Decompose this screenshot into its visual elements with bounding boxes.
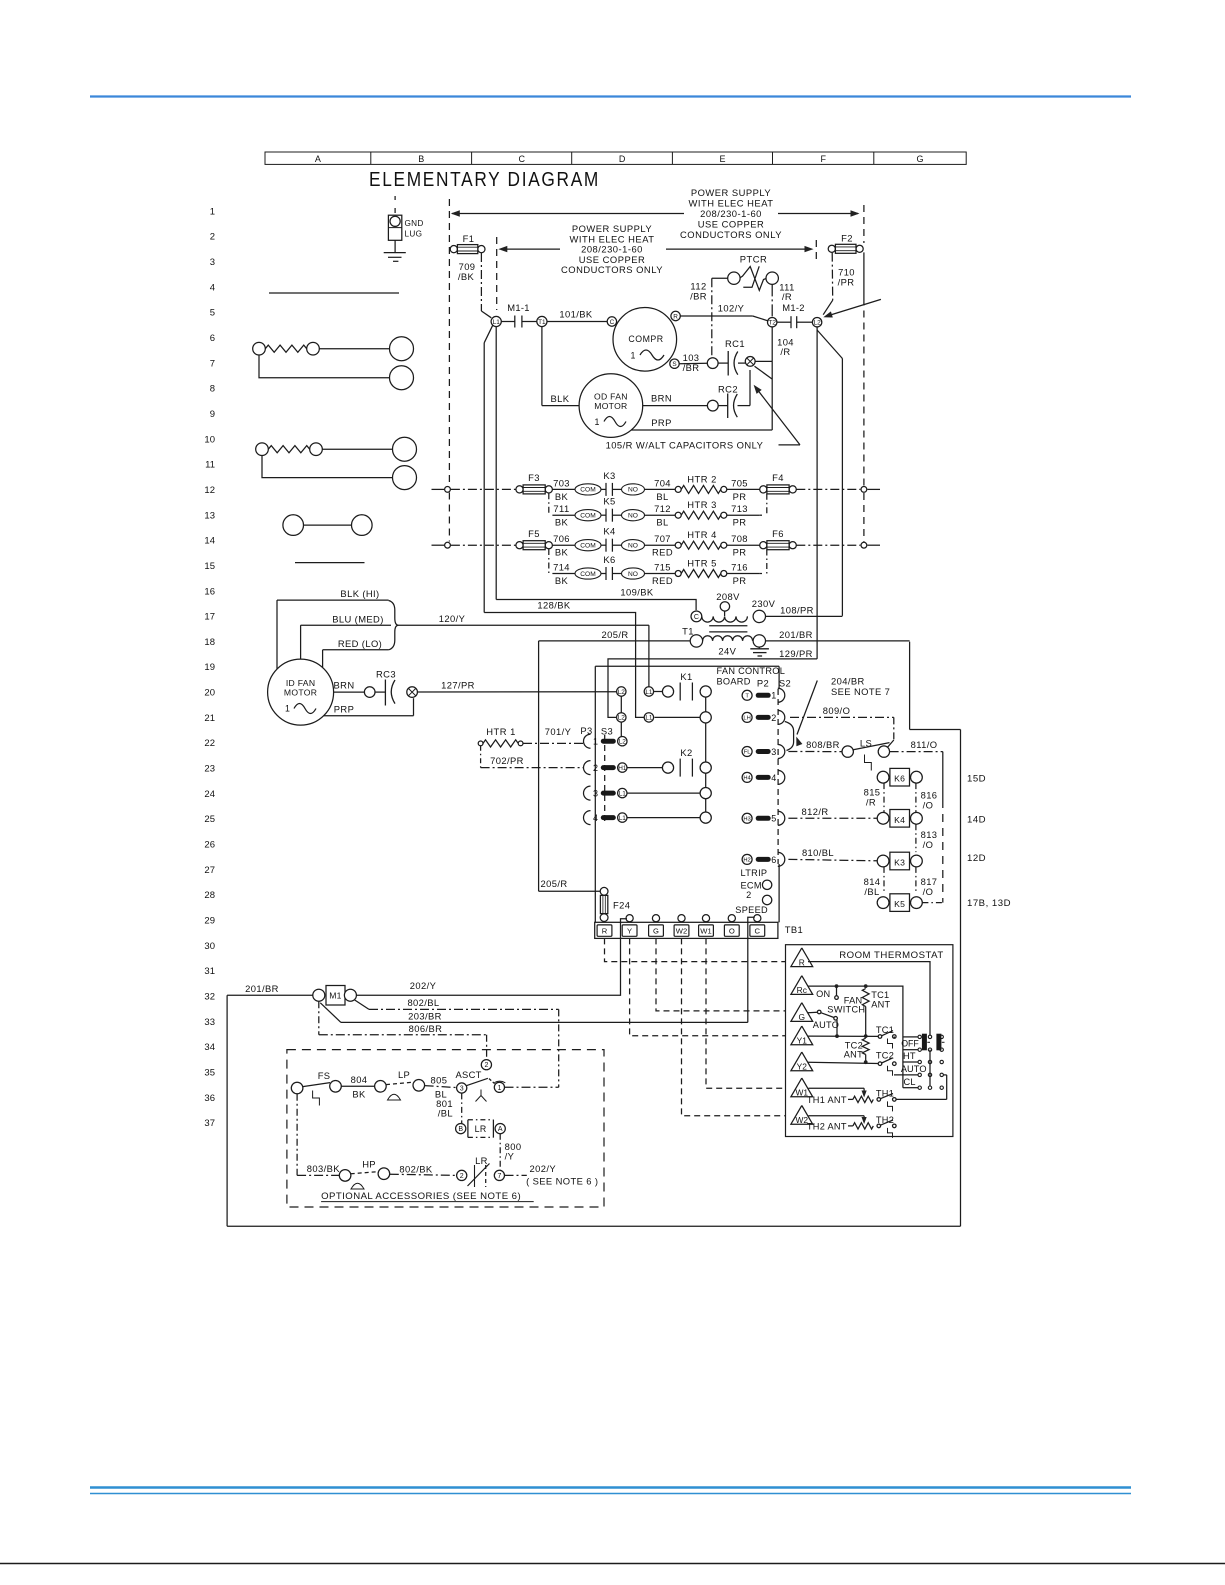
wire 702/PR <box>480 746 482 768</box>
legend symbol rows 6-7 (coil with contacts) <box>253 342 266 355</box>
svg-text:201/BR: 201/BR <box>779 629 813 640</box>
svg-text:TH2 ANT: TH2 ANT <box>807 1121 847 1131</box>
wire R to thermostat <box>605 938 786 961</box>
svg-text:129/PR: 129/PR <box>779 648 813 659</box>
svg-text:24: 24 <box>204 789 215 800</box>
gnd lug <box>394 196 396 202</box>
svg-text:GND: GND <box>405 219 424 228</box>
thermostat terminal G <box>791 1003 813 1022</box>
svg-text:3: 3 <box>771 747 776 757</box>
svg-text:S3: S3 <box>601 726 613 737</box>
svg-text:SWITCH: SWITCH <box>827 1005 865 1015</box>
svg-text:22: 22 <box>204 738 215 749</box>
field wiring stub left row12 <box>432 488 445 490</box>
svg-text:/O: /O <box>923 886 934 897</box>
wire 802/BL <box>355 1000 369 1009</box>
svg-text:3: 3 <box>460 1086 464 1093</box>
compressor COMPR 1 <box>613 308 677 372</box>
svg-text:C: C <box>694 614 699 621</box>
wire L1 drop to 109/BK <box>484 325 493 343</box>
svg-text:H4: H4 <box>743 775 751 781</box>
svg-text:L1: L1 <box>493 319 501 326</box>
svg-text:803/BK: 803/BK <box>307 1163 340 1174</box>
svg-text:4: 4 <box>771 773 776 783</box>
wire 101/BK <box>547 321 607 323</box>
svg-text:701/Y: 701/Y <box>545 726 572 737</box>
secondary ground <box>758 647 760 649</box>
svg-text:NO: NO <box>628 513 638 520</box>
wire 814/BL <box>883 867 885 894</box>
svg-text:L1: L1 <box>619 790 627 797</box>
wire 813/O <box>915 824 917 852</box>
svg-text:F4: F4 <box>772 472 784 483</box>
svg-text:S2: S2 <box>779 678 791 689</box>
contactor coil M1 <box>313 989 325 1001</box>
svg-text:HTR 4: HTR 4 <box>687 529 717 540</box>
annotation arrow to L2 <box>826 299 881 316</box>
svg-text:12: 12 <box>204 485 215 496</box>
terminal T2 <box>768 318 777 327</box>
svg-text:704: 704 <box>654 477 671 488</box>
wire 812/R <box>788 817 877 819</box>
svg-text:W2: W2 <box>676 927 687 936</box>
wire 202/Y see note 6 <box>505 1174 527 1176</box>
svg-text:715: 715 <box>654 562 671 573</box>
fan switch ON <box>836 986 838 996</box>
column header strip A-G <box>265 152 966 164</box>
svg-text:2: 2 <box>460 1173 464 1180</box>
wire T1 to OD fan (BLK) <box>541 327 543 406</box>
svg-text:BLU (MED): BLU (MED) <box>332 613 384 624</box>
page top rule (blue) <box>90 95 1131 97</box>
svg-text:1: 1 <box>497 1085 501 1092</box>
board row L1-4 <box>627 817 700 819</box>
svg-text:BK: BK <box>555 517 569 528</box>
wire F1 to L1 <box>480 253 482 311</box>
svg-text:K6: K6 <box>603 554 615 565</box>
svg-text:F5: F5 <box>528 528 540 539</box>
relay coil K4 <box>890 810 910 828</box>
svg-text:/BL: /BL <box>864 886 879 897</box>
svg-text:102/Y: 102/Y <box>718 303 745 314</box>
ID fan motor <box>268 659 334 725</box>
legend symbol rows 13-14 (two terminals) <box>283 515 304 536</box>
transformer T1 secondary <box>690 635 702 647</box>
svg-text:/O: /O <box>923 839 934 850</box>
svg-text:810/BL: 810/BL <box>802 847 834 858</box>
svg-text:BLK (HI): BLK (HI) <box>340 588 379 599</box>
svg-text:T2: T2 <box>768 320 776 327</box>
svg-text:/BR: /BR <box>690 291 707 302</box>
svg-text:208/230-1-60: 208/230-1-60 <box>700 208 762 219</box>
svg-text:BOARD: BOARD <box>717 676 751 686</box>
wire 800/Y <box>499 1134 501 1170</box>
svg-text:9: 9 <box>210 409 215 420</box>
svg-text:33: 33 <box>204 1017 215 1028</box>
field wiring stub right row12 <box>868 488 881 490</box>
svg-text:M1-1: M1-1 <box>507 302 530 313</box>
svg-text:23: 23 <box>204 764 215 775</box>
room thermostat box <box>786 945 953 1137</box>
svg-text:M1-2: M1-2 <box>782 302 805 313</box>
svg-text:B: B <box>418 154 424 164</box>
svg-text:F1: F1 <box>463 233 475 244</box>
svg-text:L1: L1 <box>619 815 627 822</box>
svg-text:35: 35 <box>204 1068 215 1079</box>
wire F2 to L2 <box>831 253 834 301</box>
wire 816/O <box>915 783 917 812</box>
svg-text:HTR 1: HTR 1 <box>486 726 516 737</box>
svg-text:6: 6 <box>771 855 776 865</box>
svg-text:K5: K5 <box>603 496 615 507</box>
svg-text:108/PR: 108/PR <box>780 604 814 615</box>
wire 806/BR <box>318 1001 320 1034</box>
svg-text:205/R: 205/R <box>601 629 628 640</box>
svg-text:708: 708 <box>731 533 748 544</box>
svg-text:1: 1 <box>210 206 215 217</box>
svg-text:R: R <box>673 313 678 320</box>
svg-text:R: R <box>799 957 805 967</box>
svg-text:711: 711 <box>553 503 569 514</box>
svg-text:FAN CONTROL: FAN CONTROL <box>717 666 786 676</box>
svg-text:NO: NO <box>628 543 638 550</box>
svg-text:8: 8 <box>210 384 215 395</box>
svg-text:2: 2 <box>771 713 776 723</box>
lockout relay LR <box>456 1124 466 1134</box>
svg-text:TB1: TB1 <box>785 924 803 935</box>
svg-text:L2: L2 <box>618 689 626 696</box>
svg-text:( SEE NOTE 6 ): ( SEE NOTE 6 ) <box>526 1176 598 1187</box>
svg-text:LR: LR <box>475 1124 487 1134</box>
svg-text:CONDUCTORS ONLY: CONDUCTORS ONLY <box>561 264 663 275</box>
wire 109/BK <box>495 327 497 600</box>
svg-text:LR: LR <box>475 1155 488 1166</box>
svg-text:L2: L2 <box>619 739 627 746</box>
svg-text:POWER SUPPLY: POWER SUPPLY <box>691 187 772 198</box>
wire G drop <box>656 938 786 1011</box>
svg-text:/PR: /PR <box>838 277 855 288</box>
svg-text:G: G <box>799 1012 806 1022</box>
board row L1-3 <box>627 792 700 794</box>
svg-text:702/PR: 702/PR <box>490 755 524 766</box>
terminal R <box>671 311 680 320</box>
wire 809/O <box>785 722 794 751</box>
svg-text:716: 716 <box>731 562 748 573</box>
svg-text:NO: NO <box>628 571 638 578</box>
terminal C <box>607 317 616 326</box>
svg-text:14D: 14D <box>967 815 986 826</box>
svg-text:PR: PR <box>733 491 747 502</box>
svg-text:13: 13 <box>204 510 215 521</box>
wire 805/BL <box>425 1086 457 1088</box>
svg-text:ROOM THERMOSTAT: ROOM THERMOSTAT <box>839 950 944 961</box>
svg-text:ANT: ANT <box>871 999 890 1009</box>
terminal L2 <box>812 318 821 327</box>
svg-text:LTRIP: LTRIP <box>741 868 768 878</box>
wire 817/O <box>915 867 917 894</box>
speed tap bracket <box>389 601 399 626</box>
svg-text:K3: K3 <box>894 858 905 868</box>
svg-text:21: 21 <box>204 713 215 724</box>
svg-text:TC1: TC1 <box>876 1025 894 1035</box>
svg-text:BK: BK <box>555 491 569 502</box>
wire Y drop <box>630 938 786 1035</box>
transformer core <box>709 625 747 627</box>
outer power boundary dashed right <box>863 205 865 243</box>
svg-text:K1: K1 <box>680 671 692 682</box>
wire 127/PR <box>417 691 616 693</box>
svg-text:27: 27 <box>204 865 215 876</box>
svg-text:208V: 208V <box>716 591 740 602</box>
svg-text:31: 31 <box>204 966 215 977</box>
drop F3 to 711 <box>548 493 550 515</box>
svg-text:201/BR: 201/BR <box>245 983 279 994</box>
svg-text:36: 36 <box>204 1093 215 1104</box>
svg-text:MOTOR: MOTOR <box>594 401 627 411</box>
svg-text:OD FAN: OD FAN <box>594 392 628 402</box>
svg-text:S: S <box>672 361 676 368</box>
svg-text:1: 1 <box>285 704 290 714</box>
svg-text:10: 10 <box>204 434 215 445</box>
svg-text:L1: L1 <box>645 689 653 696</box>
svg-text:AUTO: AUTO <box>901 1064 927 1074</box>
svg-text:H2: H2 <box>743 857 750 863</box>
svg-text:1: 1 <box>771 691 776 701</box>
legend horizontal line row 4 <box>269 292 399 294</box>
svg-text:806/BR: 806/BR <box>409 1023 443 1034</box>
wire 129/PR <box>608 659 817 718</box>
svg-text:811/O: 811/O <box>911 739 938 750</box>
svg-text:6: 6 <box>210 333 215 344</box>
wire L2 drop <box>816 327 818 659</box>
svg-text:K6: K6 <box>894 774 905 784</box>
svg-text:2: 2 <box>746 890 751 900</box>
terminal T1 <box>537 316 547 326</box>
wire 815/R <box>883 783 885 812</box>
svg-text:K4: K4 <box>603 526 615 537</box>
wire 112/BR (PTCR left leg) <box>712 277 728 279</box>
svg-text:F2: F2 <box>841 233 853 244</box>
svg-text:205/R: 205/R <box>540 878 567 889</box>
wire 120/Y <box>398 624 649 626</box>
wire 120/Y riser to L1 <box>648 625 650 687</box>
svg-text:706: 706 <box>553 533 570 544</box>
terminal strip TB1 <box>595 922 778 938</box>
page bottom black rule <box>0 1563 1225 1565</box>
svg-text:808/BR: 808/BR <box>806 739 840 750</box>
field wiring stub right row14 <box>868 544 881 546</box>
svg-text:1: 1 <box>631 351 636 361</box>
svg-text:LH: LH <box>743 715 750 721</box>
svg-text:BLK: BLK <box>551 393 570 404</box>
optional accessories box <box>287 1050 604 1207</box>
svg-text:714: 714 <box>553 562 570 573</box>
svg-text:HTR 5: HTR 5 <box>687 558 717 569</box>
svg-text:7: 7 <box>210 358 215 369</box>
svg-text:A: A <box>315 154 321 164</box>
svg-text:/R: /R <box>782 291 792 302</box>
wire 808/BR <box>788 751 842 753</box>
svg-text:28: 28 <box>204 890 215 901</box>
svg-text:804: 804 <box>351 1074 368 1085</box>
svg-text:F: F <box>820 154 826 164</box>
svg-text:26: 26 <box>204 840 215 851</box>
relay coil K5 <box>890 894 910 912</box>
svg-text:BL: BL <box>656 517 668 528</box>
system switch matrix <box>918 1035 921 1038</box>
svg-text:K3: K3 <box>603 470 615 481</box>
svg-text:K2: K2 <box>680 747 692 758</box>
svg-text:30: 30 <box>204 941 215 952</box>
svg-text:H1: H1 <box>618 765 627 772</box>
svg-text:29: 29 <box>204 916 215 927</box>
legend short line row 15 <box>295 562 365 564</box>
svg-text:R: R <box>602 927 608 936</box>
svg-text:C: C <box>755 927 761 936</box>
svg-text:713: 713 <box>731 503 748 514</box>
svg-text:COMPR: COMPR <box>628 334 663 344</box>
svg-text:203/BR: 203/BR <box>408 1010 442 1021</box>
thermostat terminal R <box>791 948 813 967</box>
relay coil K6 <box>890 768 910 786</box>
wire 202/Y <box>356 919 627 996</box>
svg-text:HTR 3: HTR 3 <box>687 499 717 510</box>
svg-text:Rc: Rc <box>797 985 807 995</box>
svg-text:SPEED: SPEED <box>735 905 768 915</box>
svg-text:PRP: PRP <box>651 417 671 428</box>
svg-text:BRN: BRN <box>334 680 355 691</box>
svg-text:2: 2 <box>593 763 598 773</box>
wire 205/R <box>539 640 691 642</box>
svg-text:703: 703 <box>553 477 570 488</box>
svg-text:F3: F3 <box>528 472 540 483</box>
svg-text:G: G <box>653 927 659 936</box>
thermostat terminal Y1 <box>791 1026 813 1045</box>
anticipator TC2 ANT <box>862 1038 869 1054</box>
svg-text:109/BK: 109/BK <box>620 586 653 597</box>
svg-text:F6: F6 <box>772 528 784 539</box>
svg-text:COM: COM <box>580 571 595 578</box>
svg-text:3: 3 <box>210 257 215 268</box>
svg-text:202/Y: 202/Y <box>530 1163 557 1174</box>
svg-text:C: C <box>518 154 525 164</box>
svg-text:L2: L2 <box>814 320 822 327</box>
wire 128/BK <box>484 613 644 718</box>
svg-text:L1: L1 <box>645 715 653 722</box>
svg-text:812/R: 812/R <box>801 806 828 817</box>
svg-text:712: 712 <box>654 503 671 514</box>
svg-text:B: B <box>458 1126 463 1133</box>
svg-text:PR: PR <box>733 575 747 586</box>
terminal S <box>670 359 679 368</box>
svg-text:ELEMENTARY DIAGRAM: ELEMENTARY DIAGRAM <box>369 168 600 191</box>
ground symbol <box>394 240 396 252</box>
svg-text:RC2: RC2 <box>718 384 738 395</box>
svg-text:P2: P2 <box>757 678 769 689</box>
svg-text:101/BK: 101/BK <box>559 309 592 320</box>
board row 2 <box>617 713 626 722</box>
terminal L1 <box>491 316 501 326</box>
field wiring stub left row14 <box>432 544 445 546</box>
svg-text:204/BR: 204/BR <box>831 675 865 686</box>
svg-text:802/BL: 802/BL <box>407 997 439 1008</box>
svg-text:14: 14 <box>204 536 215 547</box>
svg-text:5: 5 <box>210 308 215 319</box>
wire 701/Y <box>523 742 584 744</box>
wire 802/BK <box>390 1174 457 1175</box>
wire PRP to RC3 <box>324 715 414 717</box>
wire 108/PR <box>766 615 843 617</box>
svg-text:12D: 12D <box>967 853 986 864</box>
svg-text:USE COPPER: USE COPPER <box>698 218 764 229</box>
svg-text:T1: T1 <box>682 626 694 637</box>
svg-text:15D: 15D <box>967 774 986 785</box>
svg-text:BRN: BRN <box>651 393 672 404</box>
svg-text:2: 2 <box>210 232 215 243</box>
svg-text:K5: K5 <box>894 899 905 909</box>
svg-text:RC3: RC3 <box>376 669 396 680</box>
svg-text:/BL: /BL <box>438 1107 453 1118</box>
fuse F24 <box>539 890 601 892</box>
svg-text:RED: RED <box>652 547 673 558</box>
svg-text:LP: LP <box>398 1069 410 1080</box>
svg-text:4: 4 <box>593 813 598 823</box>
svg-text:F24: F24 <box>613 900 630 911</box>
fan control board outline <box>594 666 596 922</box>
svg-text:COM: COM <box>580 487 595 494</box>
svg-text:15: 15 <box>204 561 215 572</box>
wire BRN <box>643 405 708 407</box>
outer power boundary dashed left <box>448 199 450 486</box>
svg-text:BL: BL <box>656 491 668 502</box>
wire BRN to RC3 <box>334 691 365 693</box>
svg-text:O: O <box>729 927 735 936</box>
wire 811/O <box>890 751 943 753</box>
wire 801/BL <box>461 1093 463 1123</box>
wire 111/R (PTCR right leg) <box>771 284 773 317</box>
svg-text:D: D <box>619 154 626 164</box>
svg-text:802/BK: 802/BK <box>399 1164 432 1175</box>
power supply span arrow 2 <box>505 248 560 250</box>
svg-text:WITH ELEC HEAT: WITH ELEC HEAT <box>689 197 774 208</box>
svg-text:20: 20 <box>204 688 215 699</box>
svg-text:7: 7 <box>497 1173 501 1180</box>
svg-text:MOTOR: MOTOR <box>284 688 317 698</box>
drop F6 to 716 <box>766 550 768 574</box>
svg-text:PTCR: PTCR <box>740 254 768 265</box>
svg-text:128/BK: 128/BK <box>537 600 570 611</box>
svg-text:809/O: 809/O <box>823 705 851 716</box>
svg-text:A: A <box>498 1126 503 1133</box>
thermostat terminal Rc <box>791 976 813 995</box>
svg-text:W1: W1 <box>700 927 711 936</box>
svg-text:Y: Y <box>627 927 632 936</box>
svg-text:FL: FL <box>744 750 752 756</box>
svg-text:BK: BK <box>352 1088 366 1099</box>
svg-text:NO: NO <box>628 487 638 494</box>
wire 201/BR run to right side <box>909 642 911 730</box>
svg-text:120/Y: 120/Y <box>439 613 466 624</box>
svg-text:4: 4 <box>210 282 215 293</box>
bottom rail <box>227 1225 960 1227</box>
OD fan motor <box>579 374 643 438</box>
svg-text:C: C <box>610 319 615 326</box>
svg-text:11: 11 <box>205 460 215 471</box>
wire 102/Y <box>680 315 752 317</box>
relay coil K3 <box>890 852 910 870</box>
svg-text:/BK: /BK <box>458 271 475 282</box>
svg-text:17B, 13D: 17B, 13D <box>967 898 1011 909</box>
